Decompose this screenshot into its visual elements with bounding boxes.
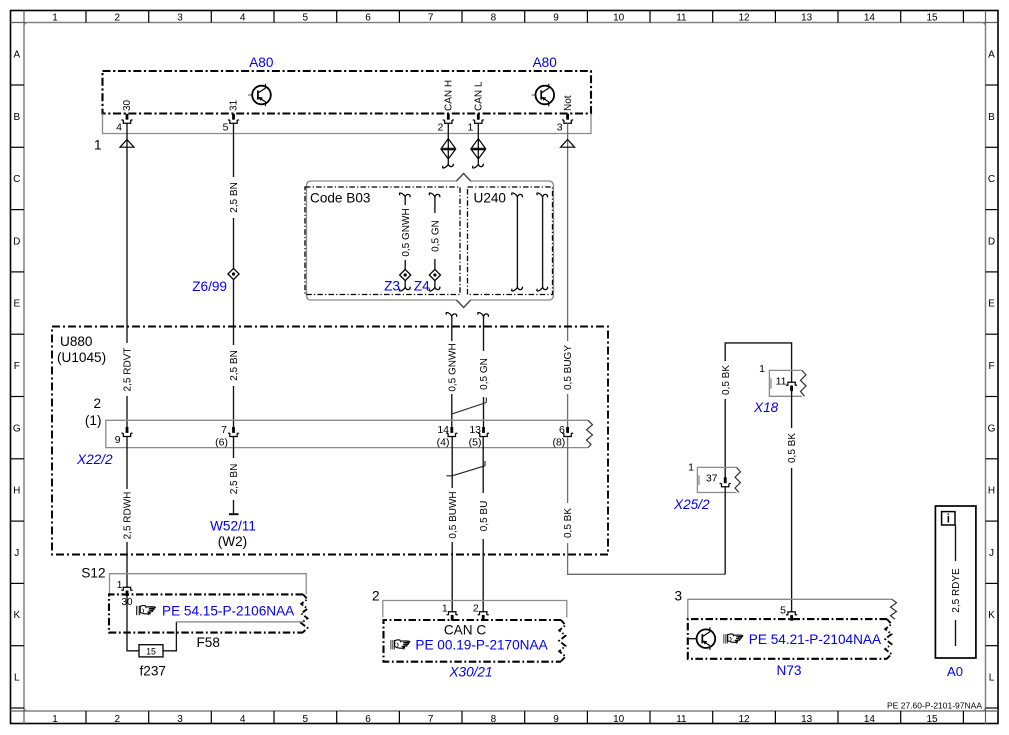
svg-text:10: 10: [613, 714, 625, 725]
svg-text:0,5 BK: 0,5 BK: [787, 433, 798, 463]
connector bar of X30/21: [372, 589, 567, 618]
svg-text:0,5 BK: 0,5 BK: [563, 508, 574, 538]
svg-text:2: 2: [115, 12, 121, 23]
svg-text:5: 5: [223, 122, 229, 134]
svg-text:31: 31: [229, 99, 240, 111]
svg-text:2,5 RDWH: 2,5 RDWH: [123, 492, 134, 540]
svg-text:L: L: [989, 673, 995, 684]
control unit U880 (U1045) box: [52, 327, 608, 555]
svg-text:Z6/99: Z6/99: [192, 279, 227, 294]
svg-text:B: B: [988, 112, 995, 123]
svg-text:f237: f237: [140, 664, 166, 679]
svg-text:1: 1: [94, 138, 102, 153]
connector bar X22/2: [106, 420, 593, 447]
variant box U240: [468, 187, 553, 295]
wire from pin 3 down to U880 pin 6 (0,5 BUGY): [567, 123, 569, 427]
pin 3 Not of A80: [557, 95, 574, 133]
svg-text:(6): (6): [215, 437, 228, 449]
wire 2,5 RDYE inside A0: [950, 525, 962, 646]
svg-text:1: 1: [759, 363, 765, 375]
svg-text:E: E: [988, 299, 995, 310]
svg-text:2: 2: [473, 603, 479, 615]
wire 1 inside U240: [512, 193, 523, 291]
wire below brace to U880 pin 14 (0,5 GNWH): [446, 312, 458, 427]
svg-text:A0: A0: [947, 664, 963, 679]
svg-text:7: 7: [428, 714, 434, 725]
svg-text:2: 2: [93, 396, 101, 411]
svg-text:2,5 BN: 2,5 BN: [229, 182, 240, 213]
fuse f237 (15): [139, 645, 166, 679]
svg-text:C: C: [988, 174, 995, 185]
svg-text:W52/11: W52/11: [210, 519, 256, 534]
svg-text:1: 1: [52, 12, 58, 23]
wire below brace to U880 pin 13 (0,5 GN): [478, 312, 490, 427]
svg-text:14: 14: [864, 12, 876, 23]
svg-text:15: 15: [146, 647, 156, 657]
svg-text:12: 12: [738, 12, 750, 23]
splice Z4: [414, 269, 441, 293]
splice Z3: [384, 269, 411, 293]
svg-text:11: 11: [776, 376, 787, 388]
svg-text:30: 30: [122, 99, 133, 111]
svg-text:PE 27.60-P-2101-97NAA: PE 27.60-P-2101-97NAA: [887, 701, 982, 711]
svg-text:1: 1: [52, 714, 58, 725]
svg-text:15: 15: [926, 714, 938, 725]
svg-text:H: H: [988, 486, 995, 497]
svg-text:X30/21: X30/21: [448, 665, 492, 680]
svg-text:X22/2: X22/2: [76, 452, 113, 467]
svg-text:3: 3: [177, 714, 183, 725]
svg-text:D: D: [13, 236, 20, 247]
pin 7 (6) of X22/2: [215, 424, 239, 449]
svg-text:J: J: [989, 548, 994, 559]
svg-text:CAN L: CAN L: [474, 81, 485, 111]
svg-text:(W2): (W2): [218, 534, 247, 549]
box N73 with reference PE 54.21-P-2104NAA: [688, 619, 892, 659]
wire pin 7 down to ground (2,5 BN): [228, 437, 240, 514]
wire from pin 5 down to U880 pin 7 (2,5 BN): [233, 123, 235, 427]
svg-text:Not: Not: [563, 95, 574, 111]
svg-text:11: 11: [676, 714, 687, 725]
svg-text:3: 3: [177, 12, 183, 23]
component A0 box: [935, 506, 976, 658]
wire pin 6 down then right to X25/2 (0,5 BK): [562, 437, 725, 574]
box F58 with reference PE 54.15-P-2106NAA: [109, 594, 308, 632]
svg-text:1: 1: [442, 603, 448, 615]
pin 5 of N73: [780, 605, 797, 621]
pin 6 (8) of X22/2: [552, 424, 573, 449]
wire 2 inside U240: [537, 193, 548, 291]
svg-text:9: 9: [553, 12, 559, 23]
wire with splice Z4 inside Code B03 (0,5 GN): [429, 193, 441, 291]
pin 13 (5) of X22/2: [469, 424, 489, 449]
switch S12 connector outline: [81, 566, 306, 595]
wire with splice Z3 inside Code B03 (0,5 GNWH): [399, 193, 411, 291]
pin 2 of X30/21: [473, 603, 489, 621]
svg-text:X18: X18: [753, 400, 779, 415]
svg-text:2: 2: [437, 122, 443, 134]
pin 4 terminal 30 of A80: [116, 99, 133, 133]
pin 9 of X22/2: [115, 427, 133, 446]
svg-text:7: 7: [428, 12, 434, 23]
svg-text:7: 7: [221, 424, 227, 436]
svg-text:12: 12: [738, 714, 750, 725]
svg-text:8: 8: [491, 12, 497, 23]
svg-text:D: D: [988, 236, 995, 247]
svg-text:U880: U880: [60, 334, 93, 349]
svg-text:A: A: [988, 50, 995, 61]
pin 2 CAN H of A80: [437, 80, 454, 134]
svg-text:0,5 BUWH: 0,5 BUWH: [448, 491, 459, 538]
wire from X18 down to N73 pin 5 (0,5 BK): [786, 391, 798, 612]
wire label 2,5 RDVT: [122, 343, 134, 396]
svg-text:11: 11: [676, 12, 687, 23]
svg-text:2: 2: [115, 714, 121, 725]
svg-text:A80: A80: [249, 55, 274, 70]
svg-text:K: K: [13, 610, 20, 621]
svg-text:N73: N73: [777, 663, 802, 678]
transistor symbol U2 in A80 right: [532, 84, 555, 107]
pin 1 CAN L of A80: [467, 81, 484, 133]
svg-text:U240: U240: [474, 191, 507, 206]
wire from pin 2 with twisted pair break: [441, 123, 455, 168]
svg-text:3: 3: [674, 589, 682, 604]
svg-text:2,5 RDYE: 2,5 RDYE: [951, 568, 962, 613]
wire pin 30 down to fuse f237: [127, 596, 139, 651]
svg-text:A: A: [13, 50, 20, 61]
svg-text:2: 2: [372, 589, 380, 604]
ground W52/11 (W2): [210, 514, 256, 549]
svg-text:0,5 BUGY: 0,5 BUGY: [563, 345, 574, 390]
wire pin 13 down to X30/21 pin 2 (0,5 BU): [478, 437, 490, 612]
svg-text:15: 15: [926, 12, 938, 23]
svg-text:2,5 RDVT: 2,5 RDVT: [123, 348, 134, 392]
svg-text:13: 13: [469, 424, 481, 436]
pin 1 of X30/21: [442, 603, 458, 621]
svg-text:10: 10: [613, 12, 625, 23]
svg-text:(8): (8): [552, 437, 565, 449]
svg-text:1: 1: [688, 462, 694, 474]
svg-text:5: 5: [303, 12, 309, 23]
splice Z6/99: [192, 268, 239, 294]
wire from X25/2 up and over to X18 (0,5 BK): [720, 343, 792, 478]
svg-text:4: 4: [116, 122, 122, 134]
svg-text:Z4: Z4: [414, 279, 430, 294]
svg-text:CAN C: CAN C: [444, 623, 486, 638]
svg-text:PE 00.19-P-2170NAA: PE 00.19-P-2170NAA: [415, 638, 548, 653]
svg-text:B: B: [13, 112, 20, 123]
shield triangle on pin 3 wire: [561, 140, 575, 148]
svg-text:3: 3: [557, 122, 563, 134]
svg-text:4: 4: [240, 12, 246, 23]
svg-text:C: C: [13, 174, 20, 185]
svg-text:F58: F58: [197, 635, 220, 650]
svg-text:CAN H: CAN H: [444, 80, 455, 111]
svg-text:6: 6: [365, 12, 371, 23]
connector X18 pin 11: [753, 363, 806, 415]
connector bar designation 2 (1): [85, 396, 102, 428]
svg-text:F: F: [988, 361, 994, 372]
wire below X25/2 down to corner: [724, 487, 726, 575]
transistor symbol in N73: [689, 627, 715, 650]
control unit A80 box: [103, 71, 592, 114]
svg-text:14: 14: [437, 424, 449, 436]
svg-text:X25/2: X25/2: [673, 497, 710, 512]
svg-text:1: 1: [117, 579, 123, 591]
svg-text:K: K: [988, 610, 995, 621]
svg-text:E: E: [13, 299, 20, 310]
svg-text:0,5 GN: 0,5 GN: [479, 358, 490, 390]
svg-text:A80: A80: [533, 55, 558, 70]
hand icon and reference PE 54.21-P-2104NAA: [724, 632, 882, 647]
svg-text:H: H: [13, 486, 20, 497]
wire pin 9 down to S12 (2,5 RDWH): [122, 437, 134, 588]
svg-text:PE 54.21-P-2104NAA: PE 54.21-P-2104NAA: [749, 632, 882, 647]
wire from pin 1 with twisted pair break: [471, 123, 485, 168]
svg-text:G: G: [988, 423, 996, 434]
svg-text:13: 13: [801, 12, 813, 23]
svg-text:9: 9: [115, 434, 121, 446]
svg-text:0,5 GN: 0,5 GN: [431, 220, 442, 252]
svg-text:(U1045): (U1045): [57, 350, 106, 365]
svg-text:1: 1: [467, 122, 473, 134]
variant selection brace around Code B03 and U240: [307, 174, 554, 308]
svg-text:13: 13: [801, 714, 813, 725]
pin 1 of S12: [117, 579, 133, 596]
svg-text:37: 37: [706, 473, 718, 485]
connector X25/2 pin 37: [673, 462, 741, 513]
twisted pair crossover below X22/2: [447, 461, 486, 476]
svg-text:J: J: [14, 548, 19, 559]
svg-text:L: L: [14, 673, 20, 684]
svg-text:9: 9: [553, 714, 559, 725]
svg-text:4: 4: [240, 714, 246, 725]
pin 14 (4) of X22/2: [437, 424, 458, 449]
svg-text:14: 14: [864, 714, 876, 725]
svg-text:0,5 GNWH: 0,5 GNWH: [447, 343, 458, 391]
box CAN C with reference PE 00.19-P-2170NAA: [384, 620, 566, 662]
info icon in A0: [942, 512, 955, 526]
connector bar of N73: [674, 589, 896, 620]
shield triangle on pin 4 wire: [120, 140, 134, 148]
connector bar of A80: [103, 114, 592, 134]
svg-text:(5): (5): [469, 437, 482, 449]
svg-text:0,5 BU: 0,5 BU: [479, 501, 490, 532]
wire pin 14 down to X30/21 pin 1 (0,5 BUWH): [447, 437, 459, 612]
svg-text:8: 8: [491, 714, 497, 725]
svg-text:2,5 BN: 2,5 BN: [229, 464, 240, 495]
svg-text:(1): (1): [85, 413, 102, 428]
svg-text:PE 54.15-P-2106NAA: PE 54.15-P-2106NAA: [162, 604, 295, 619]
svg-text:5: 5: [780, 605, 786, 617]
svg-text:0,5 BK: 0,5 BK: [721, 365, 732, 395]
wire label 2,5 BN (upper): [228, 177, 240, 218]
svg-text:(4): (4): [437, 437, 450, 449]
wire label 2,5 BN (inside U880): [228, 345, 240, 386]
svg-text:6: 6: [559, 424, 565, 436]
wire label 0,5 BUGY: [562, 341, 574, 394]
svg-text:2,5 BN: 2,5 BN: [229, 350, 240, 381]
svg-text:Code B03: Code B03: [310, 191, 370, 206]
terminal 30 label: [120, 597, 134, 608]
twisted pair crossover above X22/2: [452, 398, 487, 415]
svg-text:G: G: [13, 423, 21, 434]
svg-text:Z3: Z3: [384, 279, 400, 294]
variant box Code B03: [305, 187, 460, 295]
pin 5 terminal 31 of A80: [223, 99, 240, 133]
svg-text:5: 5: [303, 714, 309, 725]
svg-text:S12: S12: [81, 566, 105, 581]
wire from pin 4 down to U880 pin 9 (2,5 RDVT): [126, 123, 128, 427]
transistor symbol U1 in A80 left: [248, 84, 271, 107]
svg-text:F: F: [14, 361, 20, 372]
svg-text:0,5 GNWH: 0,5 GNWH: [401, 208, 412, 256]
svg-text:6: 6: [365, 714, 371, 725]
wire from fuse right up into F58 box and to the right: [163, 622, 304, 651]
